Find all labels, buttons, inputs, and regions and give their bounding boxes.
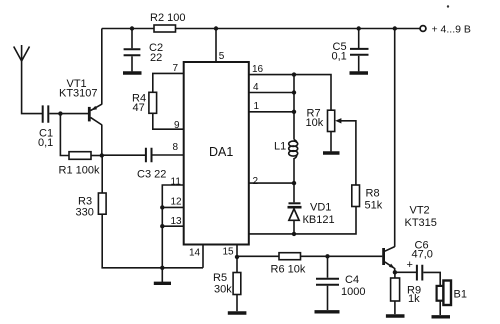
capacitor C4 <box>316 274 365 310</box>
svg-text:14: 14 <box>189 248 201 259</box>
svg-text:330: 330 <box>76 207 94 219</box>
wire pin 14 drop <box>202 244 204 268</box>
resistor R5 <box>213 272 241 296</box>
node pin1 <box>292 110 296 114</box>
node VT2 emitter junction <box>393 270 397 274</box>
wire C3 to pin 8 <box>153 154 184 156</box>
svg-text:47,0: 47,0 <box>412 249 433 261</box>
wire B1 bottom <box>439 301 441 315</box>
svg-text:C3 22: C3 22 <box>137 169 166 181</box>
svg-text:11: 11 <box>171 177 182 188</box>
node ground line junction <box>160 266 164 270</box>
resistor R8 <box>352 185 383 212</box>
svg-text:0,1: 0,1 <box>38 137 53 149</box>
wire C1 to VT1 base <box>49 113 88 115</box>
wire pin2 node to VD1 <box>293 183 295 202</box>
svg-text:51k: 51k <box>365 200 383 212</box>
svg-text:1k: 1k <box>408 293 420 305</box>
wire R5 top <box>236 257 238 273</box>
ground under R5 <box>228 311 247 314</box>
svg-text:5: 5 <box>219 51 225 62</box>
node pin2/VD1 <box>292 181 296 185</box>
resistor R6 <box>271 253 306 276</box>
svg-text:+ 4...9 В: + 4...9 В <box>432 23 471 35</box>
node pin5 on rail <box>214 26 218 30</box>
wire R8 top to R7 wiper <box>341 121 356 185</box>
wire R7 bottom to ground <box>330 132 332 152</box>
svg-text:9: 9 <box>174 120 180 131</box>
inductor L1 <box>274 140 298 159</box>
node VD1 bottom <box>292 232 296 236</box>
wire pin 15 down <box>236 244 238 257</box>
transistor VT1 <box>59 78 102 125</box>
svg-text:7: 7 <box>173 63 179 74</box>
wire VD1 to bottom node <box>293 221 295 234</box>
wire pin 5 <box>215 29 217 63</box>
capacitor C1 <box>38 105 53 149</box>
wire R9 top <box>394 272 396 278</box>
svg-text:R6 10k: R6 10k <box>271 264 306 276</box>
scan speck <box>447 5 449 7</box>
wire junction down to R1 <box>60 114 69 156</box>
svg-text:KT3107: KT3107 <box>59 88 98 100</box>
resistor R4 <box>132 92 157 114</box>
node C2 on rail <box>130 26 134 30</box>
resistor R3 <box>76 193 107 219</box>
top rail wire <box>102 28 421 30</box>
svg-text:C4: C4 <box>345 274 359 286</box>
node pin16/L1 <box>292 72 296 76</box>
wire VT1 emitter up to rail <box>101 29 103 105</box>
wire pin 12 stub <box>162 206 183 208</box>
svg-text:10k: 10k <box>306 117 324 129</box>
wire L1 to pin2 node <box>293 158 295 183</box>
ground under C2 <box>123 71 142 74</box>
svg-text:13: 13 <box>171 216 183 227</box>
ground under R9 <box>386 314 405 317</box>
capacitor C2 <box>124 29 163 72</box>
capacitor C5 <box>332 29 369 72</box>
resistor R9 <box>391 278 421 305</box>
wire pin15 node to R6 <box>237 255 279 257</box>
svg-text:DA1: DA1 <box>209 145 233 159</box>
svg-text:B1: B1 <box>454 289 467 301</box>
wire L1 bus down <box>293 75 295 140</box>
wire R4 to pin 9 <box>153 113 184 129</box>
wire pin 2 stub <box>249 182 294 184</box>
node pin15/R5/R6 <box>235 255 239 259</box>
IC DA1 <box>184 62 249 245</box>
wire pin 3 row to R8 <box>249 207 356 234</box>
svg-text:R2 100: R2 100 <box>150 12 185 24</box>
svg-text:15: 15 <box>223 247 235 258</box>
svg-text:KT315: KT315 <box>405 217 437 229</box>
svg-text:+: + <box>407 259 413 271</box>
capacitor C6 <box>407 240 433 281</box>
wire junction to C3 <box>102 154 145 156</box>
wire emitter to C6 <box>395 271 416 273</box>
wire C6 to B1 <box>423 272 440 286</box>
wire R9 bottom <box>394 301 396 314</box>
wire pin 7 to R4 <box>153 73 184 92</box>
wire pin 13 stub <box>162 225 183 227</box>
svg-text:1000: 1000 <box>341 286 365 298</box>
wire C4 top <box>327 256 329 277</box>
ground under C4 <box>315 310 340 313</box>
svg-text:VT2: VT2 <box>410 205 430 217</box>
potentiometer R7 <box>306 108 342 132</box>
wire VT2 collector up to rail <box>394 29 396 247</box>
svg-text:КВ121: КВ121 <box>303 214 335 226</box>
wire R6 to VT2 base <box>301 255 383 257</box>
ground under C5 <box>350 71 369 74</box>
node C5 on rail <box>357 26 361 30</box>
svg-text:47: 47 <box>133 102 145 114</box>
wire VT1 collector down <box>101 125 103 156</box>
wire antenna down lead <box>22 61 42 114</box>
wire pin 11 to left bus <box>162 185 183 268</box>
svg-text:0,1: 0,1 <box>332 51 347 63</box>
svg-text:30k: 30k <box>214 284 232 296</box>
capacitor C3 <box>137 148 166 181</box>
varicap VD1 <box>288 202 335 227</box>
transistor VT2 <box>384 205 437 273</box>
wire R3 down and right to ground line <box>102 214 203 268</box>
svg-text:22: 22 <box>150 52 162 64</box>
wire pin 1 stub <box>249 111 294 113</box>
node VT2 collector on rail <box>393 26 397 30</box>
wire R5 bottom <box>236 295 238 312</box>
svg-text:L1: L1 <box>274 141 286 153</box>
resistor R2 <box>150 12 185 32</box>
node pin4 <box>292 90 296 94</box>
svg-text:R5: R5 <box>213 272 227 284</box>
svg-text:16: 16 <box>252 64 264 75</box>
svg-text:1: 1 <box>254 101 260 112</box>
node C1/R1 junction <box>58 111 62 115</box>
svg-text:R1 100k: R1 100k <box>59 165 100 177</box>
svg-text:4: 4 <box>253 82 259 93</box>
ground under R7 <box>323 151 340 154</box>
ground under B1 <box>432 315 451 318</box>
svg-text:12: 12 <box>171 197 183 208</box>
wire pin 4 stub <box>249 92 294 94</box>
power terminal <box>420 23 471 35</box>
node pin 13 junction <box>160 224 164 228</box>
svg-text:8: 8 <box>173 142 179 153</box>
node R1/collector/C3 junction <box>100 153 104 157</box>
svg-text:2: 2 <box>253 176 259 187</box>
svg-text:R8: R8 <box>366 188 380 200</box>
resistor R1 <box>59 152 100 177</box>
ground under line <box>154 268 171 284</box>
node pin 12 junction <box>160 205 164 209</box>
antenna WA1 <box>14 45 30 61</box>
wire pin 16 row to R7 <box>249 75 331 111</box>
wire R1 to collector node <box>91 155 102 157</box>
svg-text:VD1: VD1 <box>310 202 331 214</box>
wire collector node down to R3 <box>101 156 103 194</box>
node R6/C4 <box>325 254 329 258</box>
earphone B1 <box>437 281 467 306</box>
